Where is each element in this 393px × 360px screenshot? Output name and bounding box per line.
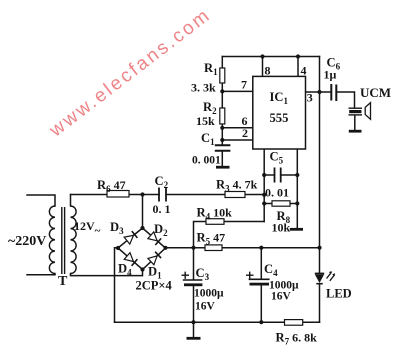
junction R5 left / C3 — [191, 246, 195, 250]
svg-text:R4 10k: R4 10k — [197, 206, 233, 222]
diode D2 — [148, 232, 161, 245]
wire left rail from bridge — [115, 248, 119, 323]
resistor R5 — [205, 245, 222, 251]
junction pin3 crossing — [317, 90, 321, 94]
junction bridge right vertex — [163, 246, 167, 250]
svg-text:8: 8 — [265, 64, 271, 78]
junction R8 right — [295, 201, 299, 205]
wire top rail VCC — [222, 56, 319, 58]
wire ground stub bottom — [193, 322, 195, 337]
svg-text:R5 47: R5 47 — [197, 231, 226, 247]
wire bridge output to R5 row — [166, 247, 320, 249]
junction C4 bottom — [259, 320, 263, 324]
wire pin5 rail down — [296, 149, 298, 228]
resistor R7 — [285, 320, 303, 326]
wire pin7 — [222, 90, 253, 92]
wire right VCC rail upper — [319, 57, 321, 274]
svg-text:3. 3k: 3. 3k — [191, 81, 216, 95]
svg-text:R6 47: R6 47 — [97, 178, 126, 194]
wire pin1 rail down — [263, 149, 265, 222]
junction pin2 C1 — [220, 138, 224, 142]
wire pin3 to C6 — [306, 92, 355, 108]
wire secondary top to rail — [71, 194, 265, 196]
junction C5 right pin5 — [295, 173, 299, 177]
wire pin8 — [262, 57, 264, 77]
junction R8 left — [262, 201, 266, 205]
junction R1 R2 pin7 — [220, 89, 224, 93]
svg-text:7: 7 — [241, 78, 247, 92]
ground below C1 — [216, 166, 230, 169]
resistor R2 — [220, 108, 225, 124]
wire right rail below LED — [319, 284, 321, 322]
transformer T — [49, 206, 76, 275]
svg-text:~220V: ~220V — [8, 234, 46, 249]
wire C3 branch — [193, 248, 195, 323]
wire R8 row — [264, 203, 297, 205]
svg-text:10k: 10k — [272, 221, 291, 235]
wire bottom ground rail — [115, 321, 320, 323]
bridge rectifier edges — [118, 228, 166, 270]
junction C3 bottom / ground — [191, 320, 195, 324]
svg-text:R7 6. 8k: R7 6. 8k — [276, 331, 318, 347]
wire R1 R2 C1 rail — [221, 57, 223, 167]
capacitor C6 plates — [331, 84, 336, 101]
diode D1 — [148, 252, 161, 265]
speaker UCM transducer — [349, 103, 371, 120]
wire primary top lead — [27, 195, 55, 206]
core — [62, 207, 65, 274]
wire secondary bottom lead — [71, 270, 143, 276]
junction pin6 — [220, 126, 224, 130]
svg-text:3: 3 — [307, 91, 313, 105]
capacitor C4 electrolytic — [246, 272, 270, 286]
svg-text:T: T — [58, 274, 68, 289]
ground speaker — [349, 130, 362, 133]
junction C2 / bridge top — [140, 192, 144, 196]
svg-text:0. 01: 0. 01 — [265, 186, 289, 200]
capacitor C5 plates — [275, 168, 281, 183]
resistor R1 — [220, 68, 225, 83]
resistor R6 — [107, 191, 129, 198]
resistor R3 — [225, 192, 245, 198]
IC1 555 box — [253, 76, 306, 149]
junction pin8 VCC — [260, 54, 264, 58]
svg-text:0. 001: 0. 001 — [192, 155, 221, 167]
wire pin4 — [297, 57, 299, 77]
wire bridge top vertical — [142, 195, 144, 229]
svg-text:1μ: 1μ — [324, 68, 337, 82]
resistor R8 — [272, 201, 290, 206]
svg-text:16V: 16V — [195, 301, 216, 313]
svg-text:15k: 15k — [196, 114, 215, 128]
wire pin2 — [222, 139, 253, 141]
wire R4 row — [194, 222, 265, 248]
svg-text:555: 555 — [270, 111, 289, 125]
diode D3 — [124, 231, 137, 244]
wire C5 right — [281, 174, 298, 176]
svg-text:UCM: UCM — [360, 85, 391, 100]
diode D4 — [124, 253, 137, 266]
junction bridge bottom vertex — [140, 267, 144, 271]
junction R3 right — [262, 193, 266, 197]
junction pin4 VCC — [296, 54, 300, 58]
capacitor C2 plates — [159, 188, 166, 202]
wire primary bottom lead — [27, 274, 55, 276]
secondary coil — [71, 206, 77, 274]
svg-text:2: 2 — [242, 126, 248, 140]
svg-text:4: 4 — [301, 64, 307, 78]
wire C4 branch — [260, 248, 262, 323]
wire pin6 — [222, 127, 253, 129]
junction C5 left — [262, 173, 266, 177]
capacitor C3 electrolytic — [182, 272, 203, 287]
LED — [315, 271, 335, 284]
svg-text:R3 4. 7k: R3 4. 7k — [216, 178, 258, 194]
wire speaker down — [354, 116, 356, 130]
capacitor C1 plates — [215, 145, 231, 151]
svg-text:0. 1: 0. 1 — [153, 202, 171, 216]
wire secondary top lead — [70, 195, 72, 207]
wire C5 left — [264, 174, 274, 176]
primary coil — [49, 206, 55, 275]
svg-text:16V: 16V — [271, 291, 292, 303]
svg-text:1000μ: 1000μ — [194, 288, 224, 300]
junction bridge top vertex — [140, 226, 144, 230]
ground bottom rail — [187, 337, 201, 340]
svg-text:2CP×4: 2CP×4 — [136, 279, 173, 293]
svg-text:LED: LED — [326, 287, 352, 301]
resistor R4 — [206, 219, 224, 225]
junction bridge left vertex — [116, 246, 120, 250]
watermark www.elecfans.com — [45, 4, 215, 141]
ground below R8 — [290, 228, 303, 231]
junction VCC rail R5 row — [317, 246, 321, 250]
junction R5 right / C4 — [259, 246, 263, 250]
